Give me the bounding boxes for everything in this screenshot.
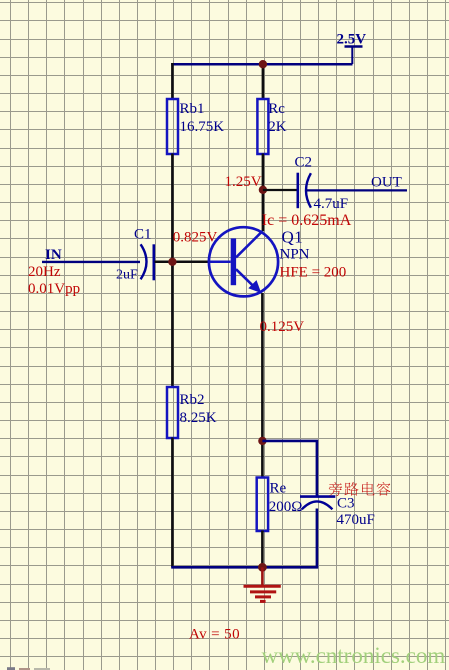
resistor Rc bbox=[257, 99, 268, 154]
svg-text:www.cntronics.com: www.cntronics.com bbox=[262, 643, 446, 668]
resistor Rb2 bbox=[167, 387, 178, 438]
svg-text:2K: 2K bbox=[268, 119, 287, 135]
wire IN bbox=[42, 261, 140, 263]
wire base bbox=[155, 261, 210, 264]
power symbol 2.5V bar bbox=[345, 45, 363, 48]
transistor Q1 emitter lead bbox=[236, 269, 255, 287]
capacitor C1 curved plate bbox=[141, 244, 147, 279]
svg-text:16.75K: 16.75K bbox=[180, 119, 225, 135]
wire emitter lower bbox=[261, 531, 264, 568]
resistor Rb1 bbox=[167, 99, 178, 154]
svg-text:OUT: OUT bbox=[371, 174, 402, 190]
svg-text:0.125V: 0.125V bbox=[260, 319, 305, 335]
svg-text:Rb2: Rb2 bbox=[180, 392, 205, 408]
capacitor C3 straight plate bbox=[300, 495, 335, 498]
transistor Q1 emitter arrow bbox=[248, 280, 261, 293]
svg-text:0.01Vpp: 0.01Vpp bbox=[28, 281, 80, 297]
capacitor C2 curved plate bbox=[306, 173, 311, 208]
label bypass capacitor CJK bbox=[329, 482, 391, 496]
ground bar 3 bbox=[255, 595, 271, 598]
svg-text:2.5V: 2.5V bbox=[337, 32, 367, 48]
wire collector to C2 bbox=[263, 189, 297, 191]
svg-text:Rb1: Rb1 bbox=[180, 101, 205, 117]
wire power stem bbox=[351, 47, 353, 65]
resistor Re bbox=[257, 478, 268, 532]
svg-text:Ic = 0.625mA: Ic = 0.625mA bbox=[262, 212, 352, 229]
svg-text:20Hz: 20Hz bbox=[28, 264, 61, 280]
svg-text:Q1: Q1 bbox=[282, 228, 304, 247]
svg-text:0.825V: 0.825V bbox=[173, 230, 218, 246]
wire bottom rail bbox=[171, 566, 318, 569]
wire emitter vertical bbox=[261, 293, 264, 478]
svg-text:Av = 50: Av = 50 bbox=[189, 627, 240, 643]
svg-text:200Ω: 200Ω bbox=[269, 499, 303, 515]
wire top rail bbox=[171, 63, 352, 66]
wire left vertical middle bbox=[171, 154, 174, 388]
svg-text:2uF: 2uF bbox=[116, 267, 138, 282]
capacitor C1 straight plate bbox=[153, 244, 156, 280]
bottom left artifact bbox=[7, 667, 50, 670]
svg-text:C1: C1 bbox=[134, 227, 152, 243]
svg-text:C2: C2 bbox=[295, 155, 313, 171]
wire OUT bbox=[307, 189, 408, 191]
svg-text:470uF: 470uF bbox=[337, 512, 375, 528]
svg-text:NPN: NPN bbox=[280, 247, 310, 263]
svg-text:HFE = 200: HFE = 200 bbox=[280, 265, 347, 281]
wire Rc top bbox=[262, 63, 265, 100]
svg-text:Re: Re bbox=[270, 480, 287, 496]
transistor Q1 collector lead bbox=[236, 231, 263, 257]
junction dot collector node bbox=[259, 186, 267, 194]
junction dot ground node bbox=[258, 563, 267, 572]
ground bar 4 bbox=[260, 600, 266, 603]
svg-text:4.7uF: 4.7uF bbox=[314, 196, 349, 212]
wire bypass top bbox=[262, 441, 318, 496]
wire bypass bottom bbox=[316, 509, 319, 568]
svg-text:IN: IN bbox=[45, 247, 62, 263]
junction dot top rail bbox=[259, 60, 267, 68]
svg-text:C3: C3 bbox=[337, 495, 355, 511]
transistor Q1 body bbox=[209, 227, 278, 296]
svg-text:Rc: Rc bbox=[268, 101, 285, 117]
transistor Q1 base bar bbox=[231, 238, 236, 285]
svg-text:8.25K: 8.25K bbox=[180, 410, 217, 426]
junction dot emitter node bbox=[258, 437, 266, 445]
svg-text:1.25V: 1.25V bbox=[225, 174, 262, 190]
capacitor C2 straight plate bbox=[296, 173, 299, 209]
ground stem bbox=[261, 567, 264, 585]
ground bar 1 bbox=[244, 585, 281, 588]
wire left vertical lower bbox=[171, 438, 174, 568]
wire collector vertical bbox=[262, 154, 265, 232]
transistor Q1 base lead bbox=[209, 261, 231, 264]
wire left vertical upper bbox=[171, 63, 174, 100]
capacitor C3 curved plate bbox=[302, 501, 333, 509]
ground bar 2 bbox=[250, 590, 276, 593]
junction dot base node bbox=[168, 258, 176, 266]
